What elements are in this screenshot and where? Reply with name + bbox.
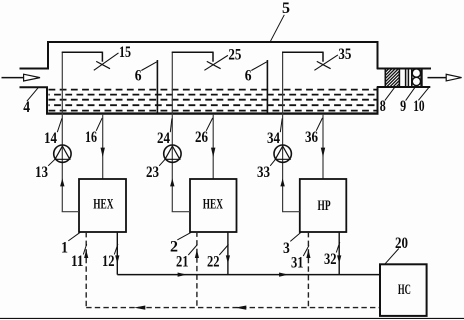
svg-text:10: 10 [413, 98, 425, 115]
leader line + nozzle stroke for 15 [94, 53, 119, 70]
svg-text:26: 26 [195, 129, 208, 146]
return pipe 31 (dashed) [307, 232, 309, 308]
return bus line from HC (dashed) [86, 307, 380, 309]
water surface dashed lines in tank [49, 90, 378, 111]
leader line for 2 [177, 232, 191, 240]
circulating pump 33 [274, 145, 291, 162]
leader line for 8 [385, 87, 395, 100]
leader line for 5 [270, 15, 284, 43]
leader line for 6 [141, 62, 157, 71]
svg-text:34: 34 [267, 130, 280, 147]
flow arrow up on riser 14 [60, 178, 64, 186]
spray header pipe (second unit) [172, 51, 213, 53]
flow arrow up on pipe 31 [306, 250, 310, 258]
leader line for 33 [270, 158, 276, 166]
leader line for 10 [418, 87, 429, 100]
svg-text:HEX: HEX [203, 197, 223, 213]
flow arrow down on pipe 22 [226, 255, 230, 263]
leader line for 26 [206, 118, 213, 131]
flow arrow down on pipe 36 [321, 148, 325, 158]
svg-text:32: 32 [324, 251, 337, 268]
air inlet duct upper edge [20, 68, 50, 70]
duct right wall [377, 41, 379, 69]
supply pipe 12 (solid) [116, 232, 118, 275]
drain pipe 16 [102, 114, 104, 180]
duct 5 top wall [47, 41, 379, 43]
leader line for 24 [170, 118, 172, 132]
leader line for 13 [48, 158, 56, 166]
leader line for 3 [290, 232, 301, 241]
flow arrow up on pipe 11 [84, 250, 88, 258]
spray nozzle 25 [207, 61, 221, 68]
fan 10 (box with two rotors) [412, 69, 422, 88]
leader line + nozzle stroke for 25 [204, 55, 228, 70]
svg-text:14: 14 [44, 130, 57, 147]
svg-text:5: 5 [282, 0, 290, 17]
riser pipe 24 (second unit) [171, 52, 173, 211]
riser pipe 14 (first unit) [61, 52, 63, 211]
leader line for 12 [114, 244, 118, 255]
svg-text:9: 9 [400, 98, 406, 115]
supply bus line to HC (solid) [117, 274, 380, 276]
svg-text:HEX: HEX [93, 197, 113, 213]
inlet air flow arrow (4 side) [2, 74, 41, 81]
heating/cooling source HC (box 20) [380, 264, 427, 316]
svg-text:21: 21 [176, 254, 189, 271]
leader line for 9 [406, 87, 415, 100]
leader line for 11 [83, 244, 86, 255]
svg-text:24: 24 [157, 130, 170, 147]
flow arrow right on supply bus (segment 1) [178, 273, 187, 277]
flow arrow down on pipe 32 [337, 255, 341, 263]
outlet channel bottom edge [377, 86, 430, 88]
svg-text:HC: HC [398, 282, 411, 298]
svg-text:15: 15 [119, 44, 131, 61]
leader line for 36 [316, 118, 322, 131]
leader line for 34 [280, 118, 282, 132]
element 9 (double plate) [406, 69, 409, 88]
leader line for 23 [159, 158, 166, 166]
water tank bottom wall [46, 112, 379, 114]
svg-text:4: 4 [23, 99, 30, 116]
pipe from riser into box 1 [62, 211, 79, 213]
svg-text:1: 1 [61, 240, 68, 257]
svg-text:6: 6 [245, 68, 252, 85]
outlet air flow arrow [428, 74, 462, 81]
svg-text:35: 35 [338, 46, 351, 63]
scan artifact: light grey rule at bottom edge [0, 317, 464, 319]
water tank left wall [46, 87, 48, 115]
flow arrow down on pipe 16 [101, 148, 105, 158]
spray header pipe (third unit) [282, 51, 323, 53]
leader line for 4 [27, 88, 38, 102]
flow arrow up on riser 34 [280, 178, 284, 186]
flow arrow up on riser 24 [170, 178, 174, 186]
svg-text:23: 23 [146, 164, 159, 181]
leader line for 6 [251, 62, 266, 71]
drain pipe 26 [212, 114, 214, 180]
flow arrow down on pipe 26 [211, 148, 215, 158]
duct left wall [47, 41, 49, 69]
demister plate 6 (second unit) [266, 60, 268, 113]
leader line for 16 [96, 118, 102, 131]
outlet channel top edge [377, 68, 431, 70]
flow arrow right on supply bus (segment 2) [279, 273, 288, 277]
leader line for 31 [303, 246, 309, 257]
water tank right wall [377, 87, 379, 115]
svg-text:16: 16 [85, 129, 97, 146]
leader line for 14 [57, 118, 62, 132]
heat exchanger HEX 1 (box 1) [79, 179, 126, 232]
return pipe 21 (dashed) [196, 232, 198, 308]
circulating pump 13 [54, 145, 71, 162]
pipe from riser into box 2 [172, 211, 190, 213]
riser pipe 34 (third unit) [282, 52, 284, 211]
svg-text:33: 33 [257, 164, 270, 181]
air inlet duct lower edge [20, 86, 49, 88]
flow arrow up on pipe 21 [195, 250, 199, 258]
leader line for 1 [68, 232, 80, 241]
heat pump HP (box 3) [300, 179, 347, 232]
svg-text:22: 22 [207, 254, 220, 271]
svg-text:3: 3 [283, 240, 290, 257]
spray nozzle 35 [317, 61, 331, 68]
return pipe 11 (dashed) [85, 232, 87, 308]
heat exchanger HEX 2 (box 2) [190, 179, 237, 232]
leader line + nozzle stroke for 35 [314, 55, 338, 70]
drain pipe 36 [322, 114, 324, 180]
flow arrow down on pipe 12 [115, 255, 119, 263]
svg-text:13: 13 [35, 164, 48, 181]
svg-text:31: 31 [291, 255, 304, 272]
supply pipe 22 (solid) [227, 232, 229, 275]
svg-text:6: 6 [135, 68, 142, 85]
svg-text:25: 25 [228, 47, 241, 64]
spray nozzle 15 [96, 61, 110, 68]
svg-text:20: 20 [395, 235, 408, 252]
spray header pipe (first unit) [62, 51, 103, 53]
leader line for 20 [384, 249, 399, 265]
flow arrow left on return bus (segment 2) [235, 306, 246, 310]
demister plate 6 (first unit) [156, 60, 158, 113]
svg-text:12: 12 [102, 253, 115, 270]
leader line for 22 [219, 245, 228, 256]
svg-text:HP: HP [318, 198, 331, 214]
leader line for 32 [336, 242, 340, 253]
svg-text:11: 11 [71, 253, 84, 270]
flow arrow left on return bus (segment 1) [134, 306, 145, 310]
filter 8 (hatched block) [385, 69, 399, 88]
pipe from riser into box 3 [282, 211, 300, 213]
leader line for 21 [188, 245, 197, 256]
circulating pump 23 [164, 145, 181, 162]
supply pipe 32 (solid) [338, 232, 340, 275]
svg-text:36: 36 [305, 129, 318, 146]
